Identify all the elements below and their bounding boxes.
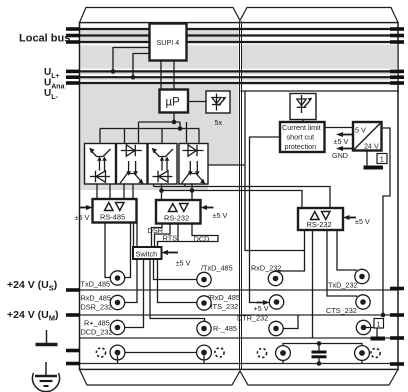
svg-text:TxD_232: TxD_232 xyxy=(328,281,358,290)
wire CTS_232 xyxy=(327,230,357,297)
svg-text:24 V: 24 V xyxy=(364,142,379,151)
svg-text:/RxD_485: /RxD_485 xyxy=(208,293,240,302)
ground bar shield xyxy=(371,337,386,341)
svg-text:DCD_232: DCD_232 xyxy=(81,328,113,337)
terminal X6 row3 mid xyxy=(197,321,211,335)
terminal X3 row3 left xyxy=(110,320,124,334)
wire V2 from current limit to +5V arrow xyxy=(250,137,281,303)
opto internals type A box1 xyxy=(89,148,110,182)
rail stubs left xyxy=(66,290,80,364)
terminal X8 +5V xyxy=(269,295,283,309)
svg-text:R+_485: R+_485 xyxy=(84,319,110,328)
wire TxD_232 xyxy=(337,230,356,271)
terminal X1 row1 left xyxy=(110,271,124,285)
arrow +-5V into RS-485 xyxy=(86,205,93,210)
bottom row left: dashed terminal xyxy=(96,348,105,357)
driver U7 RS-232 left xyxy=(156,200,201,224)
svg-text:±5 V: ±5 V xyxy=(334,137,349,146)
wire V1 from UL- to RxD elbow xyxy=(241,90,398,92)
wire DC/DC to ground xyxy=(366,151,368,166)
dashed terminal mid xyxy=(215,348,224,357)
svg-text:short cut: short cut xyxy=(287,133,315,142)
svg-text:5 V: 5 V xyxy=(355,126,366,135)
optocoupler U5 box4 xyxy=(179,144,208,185)
terminal X16 bottom right-b xyxy=(355,346,370,361)
left module grey panel xyxy=(81,24,239,190)
capacitor C1 xyxy=(318,344,320,351)
arrow GND out xyxy=(336,146,343,151)
svg-text:Local bus: Local bus xyxy=(19,33,70,45)
opto bottom pins to RS-485 xyxy=(97,184,192,199)
wire RxD_232 xyxy=(276,230,305,272)
wire DSR_232 down xyxy=(312,230,314,338)
terminal X9 DTR_232 xyxy=(269,321,283,335)
drops to bottom rail xyxy=(117,355,119,363)
LED indicator box left xyxy=(206,91,230,113)
bottom 3D face with notch xyxy=(80,370,399,386)
optocoupler U2 box1 xyxy=(85,144,116,185)
svg-text:RS-232: RS-232 xyxy=(307,220,332,229)
driver U6 RS-485 xyxy=(93,199,137,223)
svg-text:5x: 5x xyxy=(215,118,223,127)
svg-text:1: 1 xyxy=(377,321,381,328)
wire RS-485 to terminal row1 left xyxy=(125,223,131,278)
rail stubs right xyxy=(390,289,404,365)
microprocessor uP xyxy=(160,90,189,113)
terminal X5 row2 mid xyxy=(197,296,211,310)
ground bar DC/DC xyxy=(364,166,384,170)
svg-text:µP: µP xyxy=(166,97,181,109)
wire DCD xyxy=(158,224,219,248)
wire RS-485 pins into switch xyxy=(133,223,135,248)
wire LED to current limit xyxy=(302,120,304,123)
svg-text:protection: protection xyxy=(285,142,317,151)
wire RS-232 pin to DCD return xyxy=(177,224,179,242)
groove slits left module xyxy=(81,24,398,82)
wire SUPI4 to UL+ xyxy=(113,48,150,72)
wire box4 to right module V1 xyxy=(208,164,245,166)
driver U8 RS-232 right xyxy=(298,208,343,230)
dashed terminal right xyxy=(371,348,380,357)
terminal row rails xyxy=(80,290,399,364)
arrow +-5V into switch xyxy=(162,250,169,255)
svg-text:+5 V: +5 V xyxy=(254,304,269,313)
svg-text:RxD_485: RxD_485 xyxy=(81,294,111,303)
svg-text:RS-232: RS-232 xyxy=(164,214,189,223)
module body outline xyxy=(80,23,399,370)
arrow 5V out xyxy=(336,132,343,137)
wire RS-485 pin to row1 left xyxy=(105,223,110,278)
node on bus B right xyxy=(190,188,195,193)
svg-text:±5 V: ±5 V xyxy=(213,211,228,220)
ground symbol left xyxy=(46,330,48,343)
drops to bottom rail right xyxy=(282,360,284,363)
wire bottom left pair xyxy=(125,352,197,354)
svg-text:TxD_485: TxD_485 xyxy=(81,280,111,289)
arrow +-5V into RS-232 right xyxy=(343,215,350,220)
terminal marker 1 second xyxy=(374,319,384,329)
svg-text:±5 V: ±5 V xyxy=(75,213,90,222)
svg-text:SUPI 4: SUPI 4 xyxy=(157,38,180,47)
svg-text:RTS_232: RTS_232 xyxy=(208,302,239,311)
opto internals type B box4 xyxy=(182,145,206,184)
svg-text:GND: GND xyxy=(332,151,348,160)
svg-text:CTS_232: CTS_232 xyxy=(326,306,357,315)
current limit block xyxy=(280,122,325,152)
right module grey band xyxy=(242,45,398,85)
IC SUPI 4 xyxy=(150,24,187,61)
wire shield to ground bar xyxy=(366,328,377,337)
opto internals type B box2 xyxy=(120,145,144,184)
svg-text:DCD: DCD xyxy=(194,235,210,244)
wire bus B drops to RS-232 xyxy=(161,191,163,201)
local bus lines xyxy=(80,29,399,42)
protective earth symbol xyxy=(45,362,47,375)
UL+ / UAna / UL- lines xyxy=(80,71,399,83)
node on +24 UM rail xyxy=(381,313,386,318)
arrow +5V into terminal xyxy=(263,300,270,305)
svg-text:DSR_232: DSR_232 xyxy=(81,303,113,312)
svg-text:Switch: Switch xyxy=(136,250,158,259)
U stubs xyxy=(66,71,404,83)
wire DC/DC right to rail xyxy=(382,128,391,315)
wire bottom right pair elevated xyxy=(283,344,362,347)
node capacitor top xyxy=(317,341,322,346)
terminal X7 RxD_232 xyxy=(268,271,282,285)
LED indicator box right xyxy=(290,94,316,120)
divider wall between modules xyxy=(239,21,241,370)
wire uP bottom distribution xyxy=(173,113,175,123)
wire RS-485 pin through switch to row2 left xyxy=(125,223,137,303)
svg-text:RS-485: RS-485 xyxy=(100,213,125,222)
wire bus B to right RS-232 xyxy=(162,191,303,209)
terminal X10 TxD_232 xyxy=(355,269,369,283)
terminal marker 1 xyxy=(377,154,387,164)
wire RTS xyxy=(155,224,171,248)
terminal X15 bottom right-a xyxy=(276,346,291,361)
svg-text:1: 1 xyxy=(380,155,384,164)
svg-text:R-_485: R-_485 xyxy=(213,324,237,333)
svg-text:/TxD_485: /TxD_485 xyxy=(201,264,233,273)
wire SUPI4 to uP xyxy=(160,61,162,90)
switch S1 xyxy=(133,247,162,259)
optocoupler U4 box3 xyxy=(148,144,177,185)
terminal X11 CTS_232 xyxy=(356,295,370,309)
terminal X4 row1 mid xyxy=(197,272,211,286)
node capacitor bottom xyxy=(317,361,322,366)
terminal X2 row2 left xyxy=(110,295,124,309)
wire current limit to DC/DC xyxy=(325,127,354,129)
wire uP to LED box xyxy=(188,101,206,103)
wire DTR_232 xyxy=(279,315,298,329)
node on bus B left xyxy=(159,188,164,193)
wire bus A to right RS-232 xyxy=(154,187,331,209)
arrow +-5V into RS-232 left xyxy=(201,205,208,210)
DC/DC converter T1 xyxy=(353,122,382,151)
svg-text:Current limit: Current limit xyxy=(282,123,321,132)
top 3D face with notch xyxy=(80,8,399,23)
svg-text:DTR_232: DTR_232 xyxy=(237,314,268,323)
terminal X13 bottom left xyxy=(110,345,125,360)
opto internals type A box3 xyxy=(152,148,173,182)
wires switch to terminals xyxy=(125,259,144,328)
local bus stubs xyxy=(66,29,404,42)
svg-text:±5 V: ±5 V xyxy=(355,217,370,226)
terminal X14 bottom mid xyxy=(197,345,212,360)
terminal X12 shield row3 right xyxy=(356,320,370,334)
svg-text:±5 V: ±5 V xyxy=(176,259,191,268)
wire DSR xyxy=(152,224,163,248)
wire SUPI4 to UAna xyxy=(133,54,150,78)
optocoupler U3 box2 xyxy=(117,144,148,185)
bottom row right: dashed terminal xyxy=(257,348,266,357)
